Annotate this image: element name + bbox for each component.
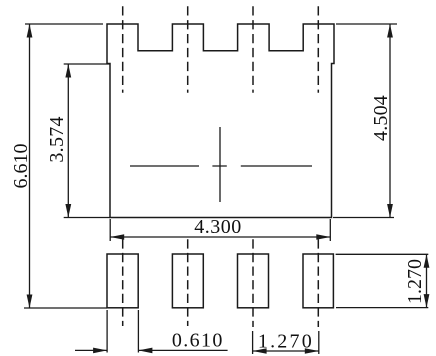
arrow 1.270 bottom left bbox=[253, 348, 267, 354]
center mark vertical bbox=[219, 127, 221, 202]
arrow 4.504 bottom bbox=[387, 204, 393, 218]
arrow 3.574 top bbox=[65, 64, 71, 78]
arrow 6.610 bottom bbox=[27, 295, 33, 309]
arrow 3.574 bottom bbox=[65, 204, 71, 218]
arrow 1.270 right bottom bbox=[424, 294, 430, 308]
dimension 1.270 bottom line bbox=[253, 350, 319, 352]
package body outline bbox=[107, 24, 334, 218]
svg-text:4.300: 4.300 bbox=[194, 216, 242, 238]
dimension 4.300 extension line left bbox=[109, 219, 111, 241]
dimension 3.574 extension line top bbox=[64, 63, 110, 65]
dimension 0.610 leader left bbox=[75, 349, 107, 351]
dimension 1.270 bottom extension line left bbox=[252, 331, 254, 354]
arrow 4.300 left bbox=[110, 234, 124, 240]
svg-text:3.574: 3.574 bbox=[46, 116, 68, 163]
pad 2 centerline bbox=[187, 239, 189, 326]
svg-text:1.270: 1.270 bbox=[258, 330, 314, 352]
pad 3 bbox=[238, 254, 269, 308]
tab centerline 2 bbox=[187, 6, 189, 93]
tab centerline 4 bbox=[317, 6, 319, 93]
pad 1 centerline bbox=[122, 239, 124, 326]
dimension 0.610 leader right bbox=[138, 349, 227, 351]
arrow 0.610 right bbox=[138, 348, 152, 354]
dimension 4.300 extension line right bbox=[329, 219, 331, 241]
dimension 4.504 extension line top bbox=[336, 23, 397, 25]
dimension 1.270 right extension line top bbox=[336, 253, 429, 255]
dimension 4.300 line bbox=[110, 236, 330, 238]
tab centerline 1 bbox=[122, 6, 124, 93]
arrow 4.504 top bbox=[387, 24, 393, 38]
dimension 4.504 extension line bottom bbox=[333, 217, 394, 219]
dimension 3.574 line bbox=[67, 64, 69, 218]
dimension 0.610 extension line right bbox=[137, 310, 139, 353]
arrow 6.610 top bbox=[27, 24, 33, 38]
dimension 1.270 right extension line bottom bbox=[336, 307, 428, 309]
pad 3 centerline bbox=[252, 239, 254, 327]
svg-text:4.504: 4.504 bbox=[370, 95, 392, 141]
arrow 1.270 bottom right bbox=[305, 348, 319, 354]
center mark horizontal bbox=[130, 165, 312, 167]
svg-text:1.270: 1.270 bbox=[404, 259, 426, 304]
dimension 6.610 line bbox=[29, 24, 31, 308]
tab centerline 3 bbox=[252, 6, 254, 93]
dimension 3.574 extension line bottom bbox=[64, 217, 110, 219]
svg-text:0.610: 0.610 bbox=[172, 329, 224, 351]
arrow 4.300 right bbox=[316, 234, 330, 240]
pad 1 bbox=[107, 254, 138, 308]
dimension 0.610 extension line left bbox=[106, 310, 108, 353]
svg-text:6.610: 6.610 bbox=[10, 144, 32, 189]
arrow 1.270 right top bbox=[424, 254, 430, 267]
dimension 4.504 line bbox=[389, 24, 391, 218]
dimension 6.610 extension line bottom bbox=[24, 307, 107, 309]
dimension 6.610 extension line top bbox=[25, 23, 103, 25]
arrow 0.610 left bbox=[93, 348, 107, 354]
dimension 1.270 bottom extension line right bbox=[318, 331, 320, 354]
pad 4 centerline bbox=[317, 239, 319, 327]
pad 2 bbox=[172, 254, 203, 308]
pad 4 bbox=[303, 254, 333, 308]
dimension 1.270 right line bbox=[426, 254, 428, 307]
